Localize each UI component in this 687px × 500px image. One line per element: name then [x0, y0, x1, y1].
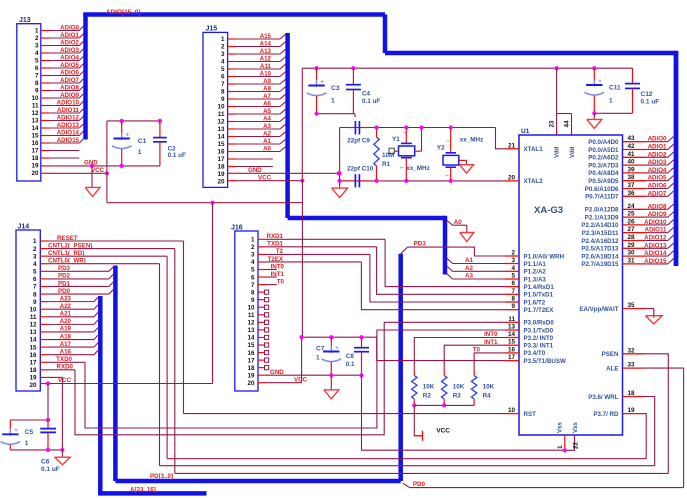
- wire R rail to VCC port: [414, 405, 422, 435]
- junction ground rail: [60, 448, 64, 452]
- svg-text:A6: A6: [263, 101, 271, 108]
- svg-text:RST: RST: [524, 411, 537, 418]
- svg-text:˜: ˜: [446, 141, 450, 148]
- svg-text:20: 20: [29, 382, 37, 389]
- junction C3 bottom: [314, 112, 318, 116]
- wire VCC rail corner to BUSW: [377, 337, 505, 360]
- svg-text:19: 19: [31, 163, 39, 170]
- svg-text:ADIO15: ADIO15: [644, 258, 667, 265]
- svg-text:7: 7: [33, 284, 37, 291]
- svg-text:31: 31: [627, 257, 635, 264]
- junction crystal gnd 1: [338, 171, 342, 175]
- svg-text:INT0: INT0: [484, 331, 498, 338]
- wire RESET horizontal to RST: [184, 413, 506, 415]
- wire CNTL1 horizontal: [167, 458, 646, 460]
- svg-text:19: 19: [247, 372, 255, 379]
- U1 Vss pin labels: [558, 422, 580, 433]
- capacitor C2: [153, 121, 186, 166]
- wire A0 stub to ground: [447, 219, 467, 233]
- svg-text:P1.5/TxD1: P1.5/TxD1: [524, 292, 554, 299]
- wire INT1 from R3 to U1 pin15: [444, 339, 505, 369]
- capacitor C9 22pf: [347, 121, 370, 144]
- svg-text:12: 12: [247, 320, 255, 327]
- svg-text:11: 11: [218, 111, 225, 118]
- svg-text:J16: J16: [231, 224, 243, 231]
- svg-text:T2: T2: [276, 248, 284, 255]
- wire RESET vertical: [183, 241, 185, 414]
- svg-text:PD0: PD0: [58, 288, 71, 295]
- svg-text:INT1: INT1: [271, 271, 285, 278]
- svg-text:P1.1/A1: P1.1/A1: [524, 261, 547, 268]
- svg-text:ADIO5: ADIO5: [60, 62, 79, 69]
- wire C7C8 top rail: [302, 336, 377, 338]
- J13 wires ADIO0-ADIO15 with bus entries: [41, 26, 84, 143]
- svg-text:RXD1: RXD1: [266, 233, 283, 240]
- junction C4 top: [351, 66, 355, 70]
- U1 pin ALE: [606, 362, 643, 373]
- svg-text:4: 4: [33, 261, 37, 268]
- power port VCC: [414, 428, 450, 441]
- svg-text:C3: C3: [331, 85, 340, 92]
- svg-text:A4: A4: [263, 116, 271, 123]
- svg-text:27: 27: [627, 226, 635, 233]
- svg-text:0.1 uF: 0.1 uF: [41, 466, 60, 473]
- svg-text:29: 29: [627, 242, 635, 249]
- wire CNTL0 vertical: [159, 264, 161, 466]
- bus PD[3..0] bottom horizontal: [115, 479, 400, 484]
- svg-text:5: 5: [33, 269, 37, 276]
- junction C7 rail left: [300, 335, 304, 339]
- wire RXD0 route: [75, 322, 505, 435]
- J16 T2EX wire pin4: [258, 256, 361, 263]
- svg-text:4: 4: [221, 59, 225, 66]
- capacitor C10 22pf: [343, 166, 374, 188]
- svg-text:+: +: [14, 427, 18, 434]
- capacitor C8: [346, 337, 369, 375]
- J16 T0 wire pin7: [258, 278, 285, 285]
- svg-text:+: +: [335, 344, 339, 351]
- svg-text:P2.1/A13D9: P2.1/A13D9: [585, 214, 619, 221]
- svg-text:11: 11: [248, 312, 255, 319]
- svg-text:16: 16: [217, 149, 225, 156]
- svg-text:20: 20: [508, 174, 516, 181]
- junction C3 top: [314, 66, 318, 70]
- junction C1 top: [120, 119, 124, 123]
- capacitor C6: [40, 420, 60, 473]
- J15 wires A15-A0 with bus entries: [228, 34, 286, 151]
- J16 RXD1 wire pin1: [258, 233, 385, 240]
- svg-text:A16: A16: [60, 348, 72, 355]
- svg-text:P1.4/RxD1: P1.4/RxD1: [524, 284, 555, 291]
- svg-text:ADIO4: ADIO4: [60, 55, 79, 62]
- wire PSEN route: [643, 354, 668, 474]
- svg-text:A20: A20: [60, 318, 72, 325]
- svg-text:9: 9: [511, 303, 515, 310]
- bus A[15..0] vertical at J15: [285, 33, 290, 218]
- svg-text:Y1: Y1: [392, 136, 400, 143]
- junction J13 ground stem: [90, 164, 94, 168]
- connector J16: [231, 224, 258, 391]
- J14 pin numbers: [29, 238, 37, 389]
- svg-text:J13: J13: [19, 17, 31, 24]
- svg-text:ADIO15: ADIO15: [57, 137, 80, 144]
- wire J14 VCC down to C6: [47, 384, 49, 421]
- svg-text:P0.2/A6D2: P0.2/A6D2: [588, 155, 619, 162]
- svg-text:A21: A21: [60, 311, 72, 318]
- svg-text:A8: A8: [263, 86, 271, 93]
- U1 pin EA/Vpp/WAIT: [579, 302, 646, 313]
- svg-text:P2.3/A15D11: P2.3/A15D11: [582, 230, 619, 237]
- svg-text:T2EX: T2EX: [268, 256, 284, 263]
- J16 INT1 wire pin6: [258, 271, 285, 278]
- bus PD[3..0] right vertical: [398, 254, 403, 481]
- svg-text:P1.3/A3: P1.3/A3: [524, 276, 547, 283]
- svg-text:P0.5/A9D5: P0.5/A9D5: [588, 178, 619, 185]
- svg-text:ADIO0: ADIO0: [648, 136, 667, 143]
- bus A[23..16] vertical: [98, 296, 103, 493]
- wire VCC vertical from J15 to C7 rail: [301, 181, 303, 338]
- svg-text:1: 1: [221, 36, 225, 43]
- junction J15 VCC riser: [300, 179, 304, 183]
- svg-text:7: 7: [35, 73, 39, 80]
- wire C11C12 bottom rail: [594, 112, 632, 114]
- svg-text:0.1 uF: 0.1 uF: [362, 98, 380, 105]
- svg-text:ADIO1: ADIO1: [648, 144, 667, 151]
- svg-text:14: 14: [31, 125, 39, 132]
- U1 right pin numbers P0 P2: [627, 135, 635, 264]
- J16 TXD1 wire pin2: [258, 241, 377, 248]
- wire C5C6 top rail: [10, 419, 48, 421]
- junction C6 bottom: [46, 448, 50, 452]
- svg-text:40: 40: [627, 159, 635, 166]
- wire C1C2 top rail: [107, 120, 160, 122]
- resistor R3 10K: [442, 369, 465, 405]
- svg-text:44: 44: [564, 120, 571, 128]
- svg-text:PD2: PD2: [58, 273, 71, 280]
- wire A2 from A bus to U1: [447, 265, 505, 272]
- wire resistor bottom rail: [414, 404, 474, 406]
- svg-text:16: 16: [29, 352, 37, 359]
- J16 pin numbers: [247, 237, 255, 387]
- junction C11 bottom: [592, 111, 596, 115]
- J14 net labels PD3-PD0: [58, 265, 71, 295]
- svg-text:5: 5: [251, 267, 255, 274]
- svg-text:26: 26: [627, 218, 635, 225]
- svg-text:42: 42: [627, 143, 635, 150]
- svg-text:Vss: Vss: [573, 422, 579, 433]
- svg-text:A17: A17: [60, 341, 72, 348]
- J16 GND wire pin19: [258, 369, 362, 376]
- svg-text:ADIO12: ADIO12: [644, 235, 667, 242]
- U1 left pin names: [524, 146, 566, 418]
- svg-text:C12: C12: [641, 91, 653, 98]
- wire VCC rail y202: [107, 202, 303, 204]
- junction C2 top: [158, 119, 162, 123]
- ground at Y2 case: [460, 165, 474, 174]
- svg-text:A1: A1: [465, 257, 473, 264]
- svg-text:5: 5: [511, 273, 515, 280]
- connector J13: [17, 17, 41, 181]
- svg-text:5: 5: [221, 66, 225, 73]
- svg-text:←: ←: [399, 164, 405, 171]
- svg-text:PD3: PD3: [414, 241, 427, 248]
- svg-text:P3.7/ RD: P3.7/ RD: [593, 411, 619, 418]
- svg-text:A10: A10: [260, 71, 272, 78]
- svg-text:4: 4: [35, 50, 39, 57]
- svg-text:6: 6: [221, 74, 225, 81]
- wire PD3 to U1 pin2: [401, 241, 505, 256]
- U1 pin PSEN: [602, 347, 643, 358]
- svg-text:A3: A3: [465, 273, 473, 280]
- svg-text:A5: A5: [263, 108, 271, 115]
- junction R1 top: [374, 125, 378, 129]
- svg-text:1: 1: [316, 355, 320, 362]
- svg-text:R2: R2: [423, 393, 432, 400]
- svg-text:P1.2/A2: P1.2/A2: [524, 269, 547, 276]
- svg-text:11: 11: [32, 103, 39, 110]
- junction C8 bottom: [359, 373, 363, 377]
- svg-text:A14: A14: [260, 41, 272, 48]
- svg-text:P2.5/A17D13: P2.5/A17D13: [581, 246, 619, 253]
- pin number 44: [564, 120, 571, 128]
- wire CNTL2 horizontal: [175, 472, 669, 474]
- svg-text:ADIO3: ADIO3: [648, 159, 667, 166]
- svg-text:0.1 uF: 0.1 uF: [641, 99, 660, 106]
- svg-text:A11: A11: [260, 63, 272, 70]
- svg-text:3: 3: [221, 51, 225, 58]
- svg-text:20: 20: [247, 380, 255, 387]
- J14 TXD0 wire pin17: [40, 356, 85, 363]
- svg-text:22: 22: [573, 441, 580, 449]
- svg-text:RESET: RESET: [57, 235, 78, 242]
- svg-text:P0.0/A4D0: P0.0/A4D0: [588, 139, 619, 146]
- wire VCC drop to J14 rail: [212, 203, 214, 384]
- resistor R4 10K: [471, 369, 494, 405]
- svg-text:A[23..16]: A[23..16]: [130, 486, 156, 493]
- pin number 1: [557, 445, 564, 449]
- svg-text:22pf C9: 22pf C9: [347, 137, 370, 144]
- svg-text:ADIO2: ADIO2: [648, 151, 667, 158]
- svg-text:7: 7: [221, 81, 225, 88]
- wire A3 from A bus to U1: [447, 273, 505, 280]
- svg-text:ADIO[15..0]: ADIO[15..0]: [106, 9, 140, 16]
- svg-text:CNTL1(_RD): CNTL1(_RD): [48, 250, 84, 257]
- svg-text:ADIO13: ADIO13: [57, 122, 80, 129]
- svg-text:A3: A3: [263, 123, 271, 130]
- svg-text:12: 12: [29, 322, 37, 329]
- svg-text:3: 3: [251, 252, 255, 259]
- svg-text:9: 9: [251, 297, 255, 304]
- ground below J13: [85, 187, 100, 196]
- J16 no-connect stubs pins 8-18: [258, 290, 269, 370]
- U1 pin P3.6/WRL: [588, 390, 643, 401]
- junction J15 GND at crystal: [337, 171, 341, 175]
- svg-text:14: 14: [217, 134, 225, 141]
- svg-text:XA-G3: XA-G3: [534, 205, 563, 216]
- J13 net labels ADIO0-ADIO15: [57, 25, 80, 145]
- svg-text:C6: C6: [41, 459, 50, 466]
- junction C7 bottom: [329, 373, 333, 377]
- wire ground stem C5C6: [61, 450, 63, 457]
- wire WRL route: [643, 397, 655, 466]
- svg-text:INT0: INT0: [271, 263, 285, 270]
- wire Vdd pin23 stub: [556, 114, 558, 136]
- svg-text:CNTL0(_WR): CNTL0(_WR): [48, 258, 86, 265]
- J14 VCC wire pin20: [40, 377, 212, 384]
- svg-text:17: 17: [217, 156, 225, 163]
- J14 CNTL1 wire pin3: [40, 250, 167, 257]
- bus ADIO[15..0] vertical at J13: [83, 13, 88, 140]
- svg-text:P0.3/A7D3: P0.3/A7D3: [588, 162, 619, 169]
- ground below C7: [324, 390, 339, 399]
- U1 right pin names P0 P2: [581, 139, 619, 268]
- svg-text:J15: J15: [206, 26, 218, 33]
- J14 net labels A23-A16: [60, 295, 72, 355]
- svg-text:8: 8: [251, 289, 255, 296]
- junction Vss: [563, 448, 567, 452]
- pin number 22: [573, 441, 580, 449]
- svg-text:18: 18: [247, 365, 255, 372]
- svg-text:2: 2: [33, 246, 37, 253]
- bus label A[23..16]: [130, 486, 156, 493]
- svg-text:GND: GND: [270, 369, 284, 376]
- svg-text:P2.4/A16D12: P2.4/A16D12: [581, 238, 619, 245]
- svg-text:36: 36: [627, 190, 635, 197]
- junction crystal gnd 2: [338, 179, 342, 183]
- svg-text:PSEN: PSEN: [602, 351, 619, 358]
- svg-text:VCC: VCC: [294, 376, 308, 383]
- svg-text:14: 14: [508, 331, 516, 338]
- resistor R2 10K: [412, 369, 435, 405]
- svg-text:21: 21: [508, 142, 516, 149]
- svg-text:xx_MHz: xx_MHz: [460, 137, 483, 144]
- svg-text:11: 11: [30, 314, 37, 321]
- junction C8 top: [359, 335, 363, 339]
- svg-text:ADIO8: ADIO8: [60, 85, 79, 92]
- svg-text:ADIO9: ADIO9: [60, 92, 79, 99]
- svg-text:P1.7/T2EX: P1.7/T2EX: [524, 307, 555, 314]
- svg-text:C7: C7: [316, 346, 325, 353]
- svg-text:ADIO11: ADIO11: [57, 107, 80, 114]
- svg-text:23: 23: [549, 120, 556, 128]
- svg-text:P3.6/ WRL: P3.6/ WRL: [588, 394, 618, 401]
- svg-text:1: 1: [557, 445, 564, 449]
- svg-text:41: 41: [627, 151, 635, 158]
- wire T2EX route to U1: [361, 262, 505, 310]
- svg-text:A22: A22: [60, 303, 72, 310]
- capacitor C11: [585, 68, 621, 113]
- svg-text:18: 18: [29, 367, 37, 374]
- svg-text:A9: A9: [263, 78, 271, 85]
- svg-text:15: 15: [217, 141, 225, 148]
- svg-text:2: 2: [221, 44, 225, 51]
- svg-text:15: 15: [247, 342, 255, 349]
- wire J14 pin19 down to ground rail: [61, 377, 63, 449]
- svg-text:EA/Vpp/WAIT: EA/Vpp/WAIT: [579, 306, 618, 313]
- svg-text:37: 37: [627, 182, 635, 189]
- svg-text:ADIO6: ADIO6: [648, 183, 667, 190]
- svg-text:10K: 10K: [423, 384, 435, 391]
- svg-text:P0.7/A11D7: P0.7/A11D7: [585, 194, 619, 201]
- wire EA to ground: [646, 309, 653, 318]
- svg-text:Y2: Y2: [437, 144, 445, 151]
- svg-text:7: 7: [251, 282, 255, 289]
- svg-text:VCC: VCC: [436, 428, 450, 435]
- svg-text:A12: A12: [260, 56, 272, 63]
- svg-text:P3.2/ INT0: P3.2/ INT0: [524, 335, 554, 342]
- svg-text:A0: A0: [263, 146, 271, 153]
- svg-text:8: 8: [33, 291, 37, 298]
- svg-text:A2: A2: [465, 265, 473, 272]
- junction Y2 bottom: [449, 179, 453, 183]
- svg-text:28: 28: [627, 234, 635, 241]
- svg-text:13: 13: [31, 118, 39, 125]
- svg-text:9: 9: [221, 96, 225, 103]
- svg-text:VCC: VCC: [91, 167, 105, 174]
- wire CNTL0 horizontal: [160, 465, 655, 467]
- svg-text:10K: 10K: [483, 384, 495, 391]
- svg-text:P0.6/A10D6: P0.6/A10D6: [585, 186, 619, 193]
- ground below crystal: [332, 188, 348, 198]
- svg-text:C5: C5: [25, 429, 34, 436]
- svg-text:15: 15: [508, 339, 516, 346]
- connector J14: [16, 224, 40, 392]
- wire CNTL1 vertical: [166, 256, 168, 459]
- junction Y2 top: [449, 125, 453, 129]
- svg-text:11: 11: [508, 316, 515, 323]
- svg-text:38: 38: [627, 174, 635, 181]
- svg-text:13: 13: [508, 324, 516, 331]
- svg-text:17: 17: [31, 148, 39, 155]
- svg-text:8: 8: [221, 89, 225, 96]
- wire TXD0 route: [85, 330, 505, 428]
- wire INT0 from R2 to U1 pin14: [414, 331, 505, 369]
- svg-text:0.1: 0.1: [346, 361, 355, 368]
- pin number 23: [549, 120, 556, 128]
- svg-text:P2.7/A19D15: P2.7/A19D15: [581, 261, 619, 268]
- svg-text:VCC: VCC: [58, 377, 72, 384]
- svg-text:19: 19: [217, 171, 225, 178]
- svg-text:ADIO14: ADIO14: [57, 130, 80, 137]
- junction VCC rail mid: [210, 201, 214, 205]
- svg-text:9: 9: [35, 88, 39, 95]
- crystal Y2: [437, 128, 467, 181]
- svg-text:2: 2: [35, 35, 39, 42]
- svg-text:ADIO2: ADIO2: [60, 40, 79, 47]
- svg-text:ADIO12: ADIO12: [57, 115, 80, 122]
- J13 VCC wire pin20: [41, 167, 107, 174]
- svg-text:3: 3: [511, 257, 515, 264]
- svg-text:6: 6: [33, 276, 37, 283]
- wire J16 VCC riser: [301, 337, 303, 383]
- bus ADIO right vertical: [674, 51, 679, 266]
- svg-text:PD0: PD0: [413, 481, 426, 488]
- J13 pin18 stub wire: [41, 157, 80, 159]
- svg-text:P3.3/ INT1: P3.3/ INT1: [524, 343, 554, 350]
- svg-text:17: 17: [508, 354, 516, 361]
- bus PD[3..0] left vertical: [113, 266, 118, 482]
- svg-text:XTAL2: XTAL2: [524, 178, 544, 185]
- svg-text:1: 1: [25, 440, 29, 447]
- svg-text:P0.0/A5D1: P0.0/A5D1: [588, 147, 619, 154]
- wire XTAL2 rail: [340, 180, 505, 182]
- svg-text:17: 17: [247, 357, 255, 364]
- junction J13 VCC riser: [105, 171, 109, 175]
- wire RXD1 route to U1: [385, 239, 505, 286]
- IC U1 XA-G3 box: [519, 128, 623, 435]
- svg-text:P1.0/A0/ WRH: P1.0/A0/ WRH: [524, 253, 565, 260]
- svg-text:ADIO5: ADIO5: [648, 175, 667, 182]
